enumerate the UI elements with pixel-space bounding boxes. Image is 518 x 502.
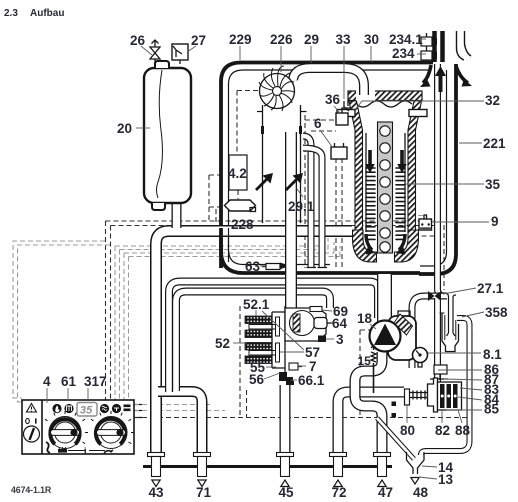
svg-text:32: 32: [485, 93, 500, 108]
heat exchanger bottom curved arrow right: [399, 234, 405, 250]
svg-text:33: 33: [336, 32, 352, 47]
svg-text:72: 72: [332, 485, 347, 500]
heat exchanger flow arrow right down: [397, 150, 407, 173]
svg-text:36: 36: [325, 92, 341, 107]
wire dark bundle horizontal: [106, 220, 442, 222]
pipe gas connection 45 riser: [280, 385, 291, 457]
heat exchanger column balls: [380, 126, 390, 252]
label 64: [331, 322, 334, 324]
label 66.1: [291, 379, 297, 381]
test nipple 3: [318, 336, 326, 343]
drain funnel 14: [407, 452, 425, 474]
label 18: [370, 324, 376, 329]
air flow arrow 29.1 right: [285, 173, 303, 191]
knob 2 ticks: [91, 411, 134, 444]
label 36: [334, 106, 340, 113]
label 52: [233, 342, 247, 344]
wire gray quad horizontal: [115, 234, 322, 246]
gas valve outlet 56 elbow: [279, 372, 293, 381]
label 29: [310, 46, 312, 63]
flue arrow down-right: [456, 66, 468, 83]
flue gas sensor 9: [419, 219, 432, 230]
label 27: [187, 46, 196, 52]
wire panel right leads: [134, 404, 210, 406]
manometer 8.1: [413, 348, 428, 363]
pump 18: [370, 321, 401, 352]
wire dashed boundary right vertical: [471, 332, 473, 418]
label 87: [444, 379, 482, 380]
svg-text:20: 20: [117, 121, 132, 136]
heat exchanger right wall hatched: [408, 101, 422, 232]
label 83: [460, 388, 482, 390]
expansion vessel membrane: [157, 70, 163, 198]
connection 71 flange and stub: [194, 453, 211, 487]
expansion vessel 20: [144, 68, 191, 203]
mounting rail: [143, 465, 392, 468]
pipe heat exchanger outlet to pump: [377, 274, 392, 322]
measurement port 234: [421, 51, 432, 60]
label 7: [298, 365, 306, 367]
condensate tray 228: [225, 200, 256, 211]
svg-text:i: i: [84, 446, 87, 456]
enclosure outer casing left/top/bottom: [221, 63, 433, 274]
connection 45 flange and stub: [277, 453, 294, 487]
enclosure outer casing right: [419, 64, 456, 274]
ignition electrode 33: [344, 101, 349, 111]
heat exchanger central tube column: [378, 122, 393, 253]
label 226: [280, 46, 282, 72]
svg-text:48: 48: [413, 485, 429, 500]
gas valve 66.1 nub: [286, 381, 294, 385]
svg-text:27: 27: [191, 33, 206, 48]
label 229: [239, 46, 241, 60]
label 82: [441, 411, 443, 423]
wire dashed outside-left stub: [208, 175, 210, 223]
power switch 0 I: [26, 418, 30, 423]
svg-text:4: 4: [43, 374, 51, 389]
svg-text:3: 3: [336, 332, 344, 347]
drain diagonal to funnel: [377, 418, 414, 459]
pipe U-bridge to connection 71: [158, 392, 202, 458]
wire right dashed drop: [443, 225, 445, 290]
svg-text:4.2: 4.2: [228, 166, 247, 181]
svg-text:Aufbau: Aufbau: [30, 8, 64, 19]
heat exchanger left flange 32: [337, 110, 355, 117]
svg-text:47: 47: [378, 485, 393, 500]
svg-text:56: 56: [249, 372, 265, 387]
label 26: [141, 46, 152, 55]
connection 43 flange and stub: [148, 453, 165, 487]
heat exchanger top hatched bar: [348, 91, 422, 101]
svg-text:35: 35: [80, 405, 93, 417]
svg-text:234.1: 234.1: [389, 32, 423, 47]
label 317: [87, 388, 89, 400]
diverter valve flange 80: [405, 389, 410, 405]
label 6: [320, 130, 333, 148]
pipe right side from flue down to siphon: [438, 64, 447, 296]
pipe flue duct 30 fan to heat exchanger: [293, 68, 364, 95]
panel divider: [41, 400, 43, 454]
condensate siphon 358: [442, 313, 459, 352]
gas valve coil 52.1 upper blocks: [245, 316, 272, 324]
svg-text:13: 13: [438, 472, 454, 487]
measurement port line: [426, 33, 428, 61]
label 35: [406, 183, 484, 185]
radiator icon: [64, 404, 73, 413]
label 8.1: [428, 352, 481, 354]
pipe expansion vessel down: [172, 203, 182, 228]
fan 226: [260, 74, 295, 109]
svg-text:71: 71: [196, 485, 212, 500]
label 3: [326, 338, 334, 340]
label 84: [458, 397, 482, 400]
air pressure switch tube 36: [336, 113, 348, 125]
svg-text:64: 64: [332, 316, 348, 331]
pipe filling valve 27.1 branch: [412, 296, 447, 368]
wire dashed 9 sensor: [412, 196, 435, 236]
heat exchanger flow arrow left down: [365, 150, 375, 173]
connection 72 flange and stub: [330, 453, 347, 487]
knob 1 frost icon: [46, 442, 50, 453]
gas valve armature 57 lower: [249, 351, 278, 356]
label 221: [459, 142, 482, 144]
diverter valve spindle: [410, 391, 428, 400]
water pressure sensor 86 fitting: [434, 365, 447, 374]
label 32: [355, 101, 484, 110]
gas valve frame: [272, 306, 295, 372]
label 63: [260, 265, 266, 267]
svg-text:8.1: 8.1: [483, 347, 502, 362]
svg-text:43: 43: [149, 485, 165, 500]
fan duct lines: [257, 105, 307, 223]
svg-text:88: 88: [455, 423, 471, 438]
label 20: [136, 127, 150, 129]
svg-text:4674-1.1R: 4674-1.1R: [11, 485, 52, 495]
label 13: [419, 477, 437, 479]
label 234: [417, 53, 426, 55]
dhw icon: [100, 404, 109, 413]
flue arrow down-left: [423, 65, 431, 83]
svg-text:82: 82: [435, 423, 450, 438]
filling valve 27.1: [428, 291, 441, 301]
pipe jacket lower run A to pump: [169, 282, 378, 393]
valve 26: [150, 40, 160, 63]
bottom icon reset key: [104, 450, 113, 453]
heat exchanger right flange 32: [409, 110, 427, 117]
label 56: [264, 373, 280, 379]
svg-text:358: 358: [485, 305, 508, 320]
pipe gas nozzle riser through enclosure: [285, 132, 297, 308]
enclosure inner liner left/top: [229, 70, 431, 265]
svg-text:80: 80: [400, 423, 415, 438]
valve bolts: [392, 402, 397, 407]
pipe condensate drain from siphon to funnel: [421, 318, 470, 455]
gas valve bracket 55: [271, 312, 273, 368]
svg-text:15: 15: [358, 354, 372, 368]
label 86: [438, 369, 482, 371]
wire dashed 4.2 sensor: [236, 91, 238, 156]
label 27.1: [443, 288, 476, 294]
heat exchanger right fins: [396, 168, 405, 239]
heat exchanger left fins: [366, 168, 375, 239]
svg-text:85: 85: [484, 402, 500, 417]
display 317: [77, 403, 97, 417]
heat exchanger inner liner lines: [366, 133, 405, 232]
wire dashed pump box: [359, 330, 361, 415]
ignition electrode block 6: [331, 147, 347, 159]
enclosure left edge restroke: [219, 228, 223, 268]
label 52.1: [255, 310, 257, 316]
wire long dashed boundary: [134, 417, 472, 419]
svg-text:234: 234: [392, 46, 415, 61]
measurement port 234.1: [421, 37, 432, 46]
pipe jacket lower run B: [176, 292, 330, 392]
svg-text:57: 57: [305, 345, 320, 360]
svg-text:317: 317: [84, 374, 107, 389]
svg-text:61: 61: [61, 374, 77, 389]
label 234.1: [420, 38, 426, 40]
svg-text:30: 30: [364, 32, 379, 47]
label 80: [406, 404, 408, 423]
wire dark bundle vertical to panel: [105, 221, 107, 400]
svg-text:18: 18: [357, 311, 373, 326]
restrictor 64: [314, 318, 327, 329]
label 4: [46, 388, 48, 403]
wire gray quad vertical to panel: [114, 246, 116, 400]
pipe from tee down to diverter valve: [434, 298, 441, 383]
tap icon: [112, 404, 121, 413]
label 88: [458, 410, 462, 423]
wire dashed 36/6 electrode: [304, 115, 306, 268]
knob 1: [49, 417, 81, 449]
safety valve 27: [172, 44, 188, 60]
max bars icon: [124, 405, 131, 408]
label 85: [446, 409, 482, 411]
bottom icon line: [68, 450, 86, 452]
svg-text:66.1: 66.1: [298, 373, 325, 388]
svg-text:45: 45: [279, 485, 295, 500]
fitting 7: [289, 363, 298, 370]
label 9: [432, 221, 489, 223]
heat exchanger bottom curved arrow left: [366, 234, 372, 250]
wire far-left pair: [13, 241, 105, 398]
warning triangle: [27, 404, 37, 413]
heat exchanger jacket bottom right: [395, 230, 419, 262]
knob 2: [95, 417, 127, 449]
heat exchanger left wall hatched: [349, 101, 363, 232]
burner icon: [52, 404, 61, 413]
heat exchanger insulation wavy line: [356, 101, 412, 107]
heat exchanger jacket bottom left: [353, 230, 377, 262]
svg-text:27.1: 27.1: [477, 281, 504, 296]
control panel box: [22, 400, 134, 454]
hatched bracket: [394, 314, 413, 335]
svg-text:26: 26: [130, 33, 146, 48]
svg-text:29: 29: [304, 32, 319, 47]
label 358: [462, 312, 484, 317]
safety valve 15: [371, 346, 376, 363]
svg-text:221: 221: [483, 136, 506, 151]
svg-text:229: 229: [229, 32, 252, 47]
connection 47 flange and stub: [374, 453, 391, 487]
svg-text:52: 52: [215, 336, 230, 351]
label 14: [422, 466, 437, 467]
burner venturi body: [285, 308, 326, 341]
flue arrow up: [435, 66, 446, 92]
bottom icon burner service: [58, 449, 67, 453]
pipe heating return 43 with elbow to right: [156, 231, 352, 457]
svg-text:226: 226: [270, 32, 293, 47]
label 57: [262, 311, 304, 352]
knob 1 ticks: [45, 411, 88, 444]
flue pipe outer walls: [457, 31, 472, 60]
svg-text:228: 228: [231, 217, 254, 232]
label 29.1: [297, 189, 303, 197]
svg-text:63: 63: [245, 259, 261, 274]
pipe small channel B inside enclosure: [303, 148, 322, 268]
label 30: [370, 46, 372, 62]
label 33: [343, 46, 345, 99]
svg-text:2.3: 2.3: [4, 8, 18, 19]
svg-text:35: 35: [485, 177, 501, 192]
svg-text:52.1: 52.1: [243, 297, 270, 312]
svg-text:6: 6: [314, 116, 322, 131]
burner channel feet: [307, 267, 328, 269]
diverter valve body: [428, 378, 438, 412]
enclosure inner liner right: [420, 70, 447, 266]
venturi 69: [310, 307, 322, 312]
svg-text:7: 7: [309, 359, 317, 374]
stepper motor 83/84: [438, 382, 462, 410]
air flow arrow 29.1 left: [255, 173, 273, 191]
label 55: [266, 366, 276, 368]
wire panel right stubs: [134, 405, 142, 418]
flue pipe inner black: [435, 31, 443, 62]
label 69: [322, 310, 332, 311]
funnel drain triangle 48: [411, 478, 419, 485]
gas nozzle 63: [266, 264, 280, 270]
air pressure sensor 4.2: [229, 155, 247, 190]
gas valve coil 52 lower blocks: [245, 343, 272, 351]
label 61: [67, 388, 69, 400]
pipe pump outlet S-bend to connection 47: [355, 352, 382, 457]
svg-text:29.1: 29.1: [288, 199, 315, 214]
gas valve armature 57 upper: [249, 325, 278, 330]
svg-text:9: 9: [491, 214, 499, 229]
pipe small channel A inside enclosure: [303, 136, 311, 268]
pump body: [388, 316, 416, 360]
pipe heating flow 72 to diverter valve: [338, 392, 404, 457]
wire dashed gas valve box: [239, 306, 241, 417]
